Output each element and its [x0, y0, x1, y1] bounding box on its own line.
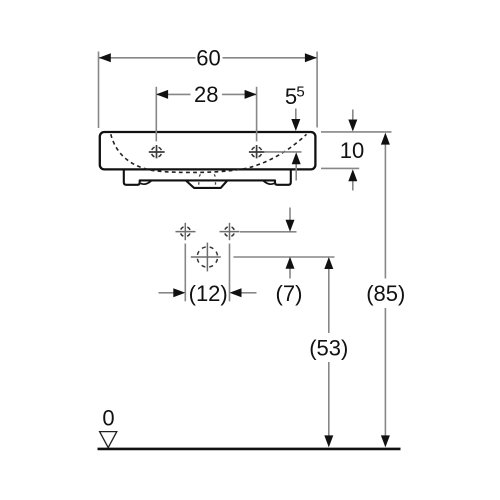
svg-text:(85): (85) — [366, 281, 405, 306]
svg-text:(12): (12) — [189, 281, 228, 306]
svg-text:10: 10 — [340, 138, 364, 163]
svg-text:0: 0 — [102, 405, 114, 430]
svg-text:(7): (7) — [276, 281, 303, 306]
svg-text:28: 28 — [194, 82, 218, 107]
svg-text:60: 60 — [196, 46, 220, 71]
svg-text:5: 5 — [285, 84, 297, 109]
svg-text:5: 5 — [296, 84, 304, 101]
svg-text:(53): (53) — [309, 335, 348, 360]
